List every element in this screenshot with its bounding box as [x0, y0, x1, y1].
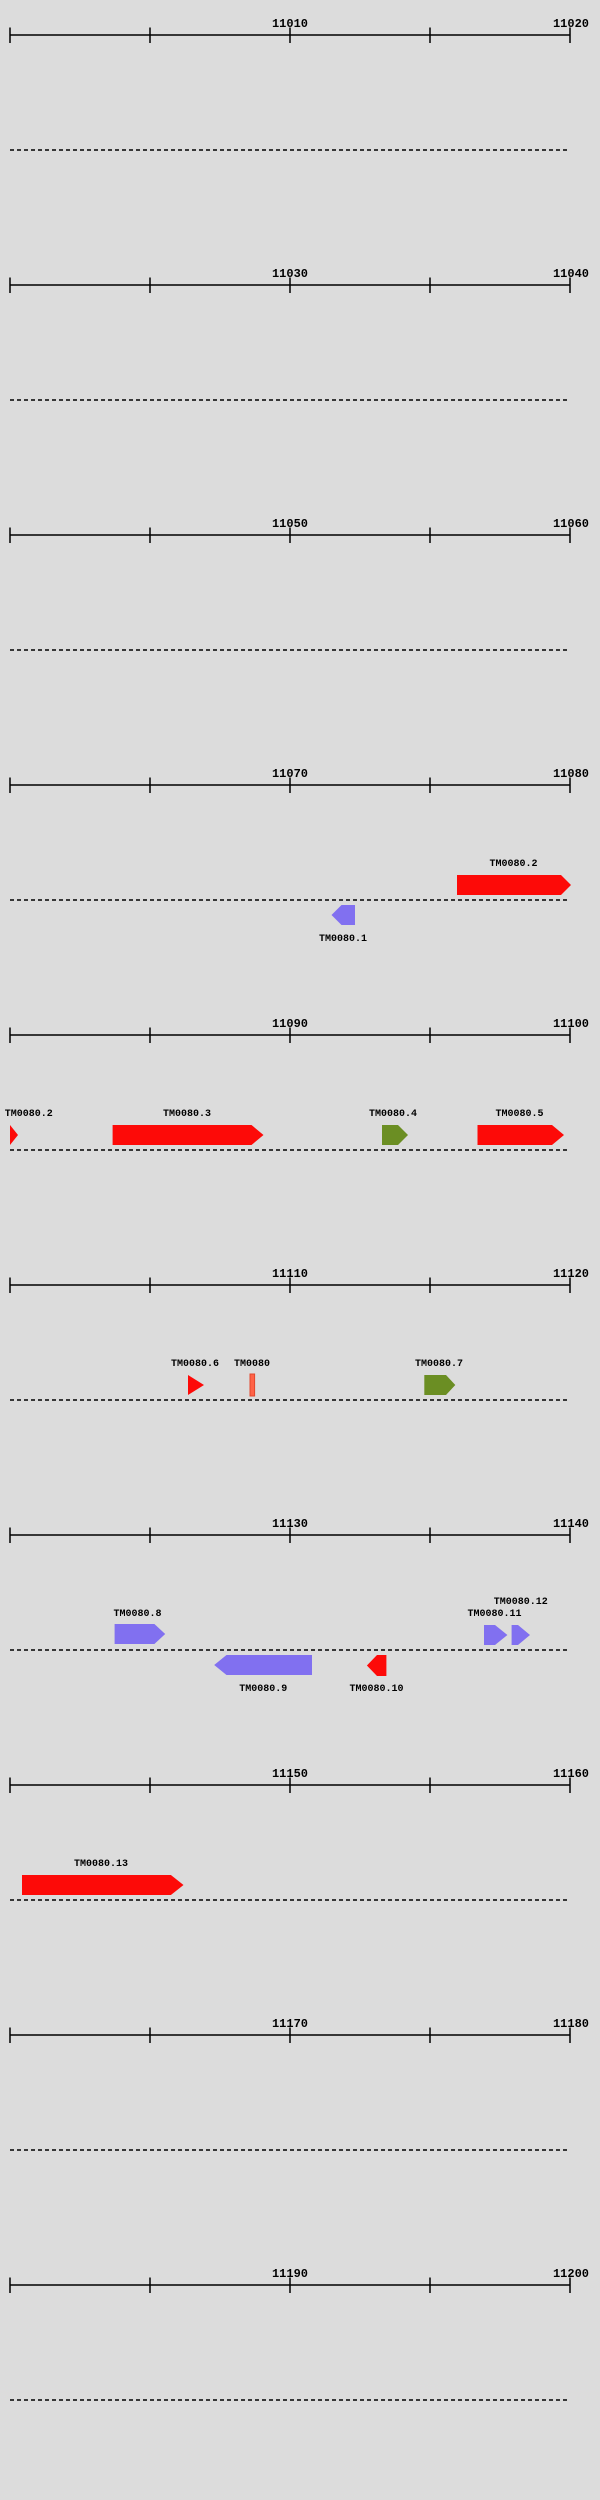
svg-text:TM0080.8: TM0080.8: [113, 1609, 161, 1620]
svg-text:TM0080.1: TM0080.1: [319, 934, 367, 945]
svg-text:11190: 11190: [272, 2267, 308, 2281]
svg-text:TM0080.2: TM0080.2: [489, 859, 537, 870]
svg-text:TM0080.10: TM0080.10: [349, 1684, 403, 1695]
svg-text:11170: 11170: [272, 2017, 308, 2031]
svg-text:TM0080.13: TM0080.13: [74, 1859, 128, 1870]
svg-text:11160: 11160: [553, 1767, 589, 1781]
svg-text:11150: 11150: [272, 1767, 308, 1781]
svg-text:11060: 11060: [553, 517, 589, 531]
svg-text:11010: 11010: [272, 17, 308, 31]
svg-text:11110: 11110: [272, 1267, 308, 1281]
svg-text:TM0080.2: TM0080.2: [5, 1109, 53, 1120]
svg-text:11050: 11050: [272, 517, 308, 531]
svg-text:11070: 11070: [272, 767, 308, 781]
svg-text:TM0080.11: TM0080.11: [467, 1609, 521, 1620]
svg-text:11090: 11090: [272, 1017, 308, 1031]
svg-text:TM0080.4: TM0080.4: [369, 1109, 417, 1120]
svg-text:11080: 11080: [553, 767, 589, 781]
svg-text:TM0080.12: TM0080.12: [494, 1597, 548, 1608]
svg-text:11130: 11130: [272, 1517, 308, 1531]
svg-text:TM0080: TM0080: [234, 1359, 270, 1370]
svg-text:11030: 11030: [272, 267, 308, 281]
svg-text:11180: 11180: [553, 2017, 589, 2031]
svg-text:TM0080.7: TM0080.7: [415, 1359, 463, 1370]
svg-text:11040: 11040: [553, 267, 589, 281]
svg-text:TM0080.5: TM0080.5: [495, 1109, 543, 1120]
svg-text:TM0080.3: TM0080.3: [163, 1109, 211, 1120]
svg-text:11100: 11100: [553, 1017, 589, 1031]
svg-text:11020: 11020: [553, 17, 589, 31]
svg-text:11200: 11200: [553, 2267, 589, 2281]
svg-text:TM0080.6: TM0080.6: [171, 1359, 219, 1370]
svg-text:11140: 11140: [553, 1517, 589, 1531]
svg-text:TM0080.9: TM0080.9: [239, 1684, 287, 1695]
svg-text:11120: 11120: [553, 1267, 589, 1281]
